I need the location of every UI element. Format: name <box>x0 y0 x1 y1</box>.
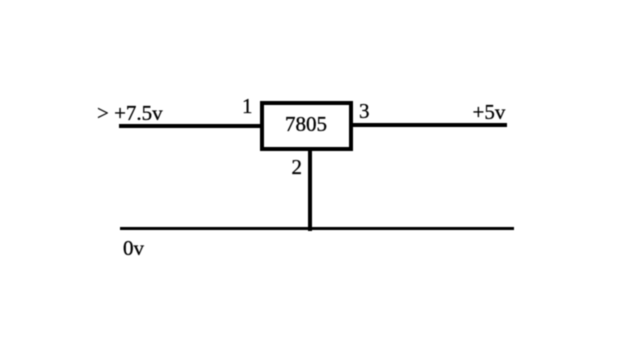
pin number 3 <box>359 101 370 122</box>
value label 7805 <box>285 114 327 135</box>
wire output from pin 3 to +5v <box>351 123 507 127</box>
label output voltage +5v <box>473 102 506 123</box>
pin number 2 <box>292 157 303 178</box>
label 0v <box>123 238 144 259</box>
pin number 1 <box>242 96 253 117</box>
regulator U1 box 7805 <box>260 101 353 151</box>
label input voltage > +7.5v <box>97 103 163 124</box>
wire ground rail 0v <box>120 227 514 231</box>
wire input from > +7.5v to pin 1 of U1 <box>119 124 262 128</box>
wire pin 2 to ground rail <box>308 147 312 231</box>
